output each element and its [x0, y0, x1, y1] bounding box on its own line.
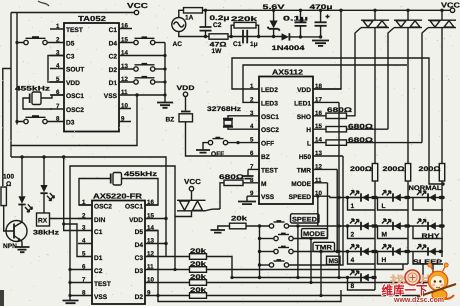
svg-text:OFF: OFF	[261, 141, 274, 148]
U3 right pin labels	[125, 204, 143, 302]
svg-text:VDD: VDD	[177, 85, 195, 92]
U2 left pin stubs 1-9	[236, 89, 259, 196]
svg-text:D5: D5	[66, 41, 75, 48]
svg-text:D4: D4	[109, 41, 118, 48]
svg-text:MS: MS	[329, 258, 339, 265]
U2 left pin labels	[261, 87, 279, 201]
svg-text:SPEED: SPEED	[289, 194, 312, 201]
LED D4 infrared	[40, 157, 54, 213]
svg-text:15: 15	[121, 37, 128, 44]
svg-text:220k: 220k	[231, 16, 258, 23]
resistor R1 47ohm 1W	[209, 34, 228, 55]
wire matrix row1	[345, 197, 443, 199]
svg-text:6: 6	[250, 150, 254, 157]
receiver RX1 38kHz	[33, 213, 92, 237]
svg-text:LED2: LED2	[261, 87, 278, 94]
wire mode col drop	[309, 239, 312, 285]
svg-text:L: L	[307, 141, 311, 148]
svg-text:20k: 20k	[190, 248, 206, 255]
svg-text:2: 2	[250, 96, 254, 103]
svg-text:RX: RX	[38, 218, 48, 225]
U3 left pin labels	[94, 204, 112, 302]
resistor R11 20k (C3)	[190, 248, 233, 278]
svg-text:LED3: LED3	[261, 100, 278, 107]
svg-text:VDD: VDD	[297, 87, 311, 94]
svg-text:200Ω: 200Ω	[383, 166, 406, 173]
triac T1	[347, 10, 390, 163]
svg-text:9: 9	[121, 116, 125, 123]
scan mark bottom left corner	[0, 290, 4, 306]
wire AC to fuse	[179, 10, 184, 17]
LED D16 speed H	[374, 245, 408, 265]
junction key return	[163, 54, 166, 97]
pushbutton S10 MS	[260, 156, 344, 267]
svg-text:www.dzsc.com: www.dzsc.com	[393, 295, 444, 304]
svg-text:1: 1	[351, 203, 355, 210]
pushbutton S4 (pin D2 right)	[134, 63, 165, 71]
resonator X1 455kHz label	[15, 86, 51, 93]
svg-text:L: L	[382, 203, 386, 210]
pushbutton S1 (pin D5)	[17, 36, 50, 45]
U2 right pin numbers	[315, 83, 322, 197]
LED D18 mode RHY	[407, 219, 443, 240]
svg-text:H: H	[306, 127, 311, 134]
wire left frame vertical	[10, 13, 12, 158]
svg-text:8: 8	[56, 116, 60, 123]
svg-text:17: 17	[315, 96, 322, 103]
U3 right pin stubs 16-9	[145, 205, 190, 296]
resistor R7 680ohm (SHO)	[326, 107, 353, 119]
wire W_A from TA052 pin9	[11, 93, 139, 145]
junction W_B taps	[20, 155, 167, 245]
svg-text:200Ω: 200Ω	[350, 166, 373, 173]
svg-text:D3: D3	[135, 268, 144, 275]
pushbutton S3 (pin D4 right)	[134, 36, 165, 44]
svg-text:D3: D3	[66, 120, 75, 127]
svg-text:3: 3	[250, 110, 254, 117]
svg-text:12: 12	[121, 76, 128, 83]
svg-text:H50: H50	[299, 154, 311, 161]
svg-text:OSC2: OSC2	[66, 107, 84, 114]
ground TEST pin7 U2	[242, 169, 254, 178]
svg-text:D2: D2	[135, 294, 144, 301]
U1 left pin labels	[66, 27, 84, 127]
triac T0	[175, 191, 220, 270]
U2 left pin numbers	[250, 83, 254, 197]
svg-text:20k: 20k	[190, 261, 206, 268]
svg-text:15: 15	[147, 213, 154, 220]
pushbutton S6 ON/OFF	[203, 137, 246, 158]
junction triac T0 drop	[173, 268, 176, 271]
svg-text:4: 4	[250, 123, 254, 130]
svg-text:SOUT: SOUT	[66, 67, 84, 74]
svg-text:18: 18	[315, 83, 322, 90]
svg-text:10: 10	[147, 277, 154, 284]
svg-text:200Ω: 200Ω	[419, 166, 442, 173]
resistor R15 20k (speed line)	[218, 216, 269, 230]
wire AC bottom rail	[179, 32, 209, 37]
wire pin10 speed row feed	[316, 195, 345, 226]
svg-text:7: 7	[82, 277, 86, 284]
ground supply	[312, 41, 329, 46]
resistor R3 200ohm	[350, 164, 378, 291]
wire D5 column	[145, 231, 341, 302]
U1 left pin numbers	[56, 23, 60, 123]
svg-text:10: 10	[121, 103, 128, 110]
wire C3 to VDD strap	[48, 56, 64, 83]
resonator X1 455kHz	[23, 92, 64, 109]
node VDD terminal buzzer	[177, 85, 195, 97]
wire SOUT net left edge	[3, 69, 11, 187]
LED D3 infrared	[18, 157, 32, 222]
capacitor C1 1u	[233, 30, 258, 48]
svg-text:MODE: MODE	[303, 231, 326, 238]
svg-text:1N4004: 1N4004	[272, 45, 305, 52]
U1 right pin stubs 16-9	[119, 29, 165, 122]
junction LED1 feed row4	[337, 276, 340, 279]
ground R15	[211, 230, 226, 233]
capacitor C2 0.2u	[200, 10, 230, 36]
svg-text:TEST: TEST	[94, 281, 111, 288]
pushbutton S8 MODE	[260, 183, 328, 241]
svg-text:16: 16	[315, 110, 322, 117]
LED D12 timer 4	[346, 245, 375, 265]
wire top rail	[203, 9, 451, 11]
svg-text:MODE: MODE	[291, 181, 311, 188]
svg-text:M: M	[261, 181, 267, 188]
U3 left pin stubs 1-8	[70, 205, 92, 296]
wire matrix row2	[345, 225, 443, 227]
svg-text:TMR: TMR	[297, 167, 312, 174]
junction rail B	[406, 196, 409, 253]
junction top rail taps	[204, 9, 444, 12]
resistor R13 20k (pin10)	[190, 264, 434, 285]
ground U3 VSS	[63, 301, 79, 304]
svg-text:D4: D4	[135, 242, 144, 249]
svg-text:680Ω: 680Ω	[219, 174, 245, 181]
svg-text:TMR: TMR	[315, 245, 332, 252]
svg-text:VCC: VCC	[127, 1, 148, 10]
junction rail C	[441, 182, 444, 227]
IC U1 TA052 body	[64, 14, 119, 132]
svg-text:TEST: TEST	[261, 167, 278, 174]
resonator X2 455kHz label	[124, 171, 158, 178]
triac T3	[422, 10, 456, 163]
svg-text:LED1: LED1	[294, 100, 311, 107]
wire U3 C1 tap	[64, 157, 78, 231]
resistor R6 680ohm (M pin)	[219, 174, 245, 209]
watermark badge seal	[405, 270, 420, 285]
LED D14 speed L	[374, 191, 408, 211]
LED D10 timer 1	[346, 191, 375, 211]
node VCC right terminal	[441, 1, 460, 13]
watermark red text	[382, 284, 428, 298]
svg-text:13: 13	[121, 63, 128, 70]
svg-text:4: 4	[82, 238, 86, 245]
resistor R9 680ohm (L)	[326, 137, 422, 145]
svg-text:8: 8	[351, 283, 355, 290]
resistor R4 200ohm	[383, 164, 411, 265]
svg-text:C3: C3	[66, 54, 75, 61]
svg-text:OSC2: OSC2	[94, 204, 112, 211]
LED D11 timer 2	[346, 219, 375, 239]
svg-text:1W: 1W	[212, 48, 223, 55]
ground OFF switch	[196, 150, 210, 153]
buzzer BZ1	[166, 97, 247, 157]
svg-text:C1: C1	[109, 27, 118, 34]
svg-text:VCC: VCC	[441, 1, 460, 10]
LED D15 speed M	[374, 219, 408, 239]
svg-text:32768Hz: 32768Hz	[207, 106, 242, 113]
ground Q1 emitter	[15, 242, 30, 253]
svg-text:SPEED: SPEED	[292, 216, 317, 223]
svg-text:13: 13	[147, 238, 154, 245]
svg-text:OSC1: OSC1	[125, 204, 143, 211]
pushbutton S9 TMR	[260, 169, 348, 253]
svg-text:C1: C1	[94, 229, 103, 236]
svg-text:0.2μ: 0.2μ	[210, 15, 230, 22]
wire row4 feed	[230, 276, 347, 279]
junction bottom rail	[204, 35, 275, 38]
svg-text:2: 2	[56, 37, 60, 44]
svg-text:TEST: TEST	[66, 27, 83, 34]
svg-text:455kHz: 455kHz	[124, 171, 158, 178]
wire tmr col drop	[319, 252, 322, 298]
U1 right pin numbers	[121, 23, 128, 123]
svg-text:20k: 20k	[190, 287, 206, 294]
triac T2	[388, 10, 422, 163]
wire loop above U3	[70, 166, 175, 270]
svg-text:20k: 20k	[231, 216, 247, 223]
wire switch common rail	[258, 226, 261, 279]
svg-text:BZ: BZ	[261, 154, 270, 161]
svg-text:3: 3	[82, 225, 86, 232]
svg-text:RHY: RHY	[422, 233, 441, 240]
svg-text:M: M	[382, 232, 388, 239]
svg-text:4: 4	[351, 257, 355, 264]
svg-text:5.6V: 5.6V	[263, 4, 286, 11]
svg-text:D2: D2	[109, 67, 118, 74]
U3 left pin numbers	[82, 199, 86, 297]
resistor R8 680ohm (H)	[326, 124, 388, 132]
U1 left pin stubs 1-8	[50, 29, 64, 122]
junction frame/key common	[15, 41, 18, 123]
pushbutton S5 (pin D1 right)	[134, 76, 165, 84]
svg-text:100: 100	[3, 174, 14, 181]
svg-text:12: 12	[147, 251, 154, 258]
zener D1 5.6V	[263, 4, 286, 37]
svg-text:0.1μ: 0.1μ	[283, 16, 308, 23]
svg-text:1: 1	[56, 23, 60, 30]
watermark mascot	[417, 263, 456, 301]
ground TA052 VSS	[157, 103, 173, 108]
wire key return vertical to ground	[164, 43, 166, 103]
LED D13 timer 8	[346, 271, 375, 291]
svg-text:VSS: VSS	[94, 294, 108, 301]
svg-text:20k: 20k	[190, 274, 206, 281]
svg-text:TA052: TA052	[78, 14, 106, 23]
U2 right pin labels	[289, 87, 312, 201]
svg-text:VSS: VSS	[261, 194, 275, 201]
svg-text:9: 9	[250, 190, 254, 197]
svg-text:5: 5	[82, 251, 86, 258]
pushbutton S7 SPEED	[258, 214, 345, 228]
svg-text:13: 13	[315, 150, 322, 157]
resistor R2 220k	[231, 16, 259, 37]
svg-text:AX5220-FR: AX5220-FR	[93, 192, 143, 201]
U2 right pin stubs 18-10	[313, 89, 343, 196]
svg-text:470μ: 470μ	[310, 4, 333, 11]
svg-text:16: 16	[121, 23, 128, 30]
LED D19 mode SLEEP	[407, 245, 443, 267]
diode D2 1N4004	[272, 33, 305, 52]
svg-text:C2: C2	[109, 54, 118, 61]
svg-text:15: 15	[315, 123, 322, 130]
svg-text:5: 5	[250, 137, 254, 144]
fuse F1 1A	[184, 8, 203, 22]
wire LED3 drive top	[243, 65, 407, 102]
svg-text:OFF: OFF	[211, 151, 224, 158]
svg-text:AX5112: AX5112	[272, 68, 303, 77]
svg-text:C2: C2	[94, 268, 103, 275]
wire TEST VSS tie to ground	[68, 268, 71, 300]
resistor R5 200ohm	[419, 164, 445, 258]
svg-text:C2: C2	[213, 22, 222, 29]
wire key common vertical	[16, 13, 18, 125]
wire U3 D1 tap	[62, 222, 78, 256]
svg-text:11: 11	[315, 177, 322, 184]
svg-text:VCC: VCC	[184, 177, 201, 186]
svg-text:1μ: 1μ	[250, 41, 258, 48]
svg-text:VSS: VSS	[104, 93, 118, 100]
svg-text:7: 7	[250, 163, 254, 170]
IC U2 AX5112 body	[259, 68, 313, 205]
svg-text:12: 12	[315, 163, 322, 170]
ground VSS pin9 U2	[238, 196, 256, 204]
U1 right pin labels	[104, 27, 118, 100]
svg-text:AC: AC	[173, 41, 183, 48]
junction LED1 feed	[337, 196, 340, 253]
svg-text:VDD: VDD	[129, 217, 143, 224]
svg-text:SHO: SHO	[297, 114, 311, 121]
resonator X2 455kHz	[79, 173, 158, 206]
svg-text:6: 6	[82, 264, 86, 271]
watermark url	[393, 295, 444, 304]
wire matrix row3	[348, 251, 444, 253]
svg-text:DIN: DIN	[94, 217, 106, 224]
LED D17 mode NORMAL	[407, 185, 443, 210]
svg-text:680Ω: 680Ω	[327, 107, 353, 114]
svg-text:1A: 1A	[185, 15, 194, 22]
svg-text:38kHz: 38kHz	[33, 230, 60, 237]
svg-text:2: 2	[351, 232, 355, 239]
AC source G1	[172, 18, 186, 49]
svg-text:OSC2: OSC2	[261, 127, 279, 134]
wire VCC top rail to frame	[11, 12, 134, 14]
resistor R10 100ohm	[1, 174, 14, 232]
junction rail A	[373, 196, 376, 279]
IC U3 AX5220-FR body	[92, 192, 145, 305]
wire LED1 feed vertical	[338, 102, 340, 277]
wire bottom rail right	[295, 35, 323, 38]
U3 right pin numbers	[147, 199, 154, 297]
scan mark top left	[38, 1, 49, 6]
svg-text:BZ: BZ	[166, 117, 175, 124]
wire speed column to matrix row4	[297, 226, 299, 278]
watermark faded slogan	[390, 274, 434, 287]
svg-text:D1: D1	[94, 255, 103, 262]
svg-text:14: 14	[121, 50, 128, 57]
svg-text:OSC1: OSC1	[261, 114, 279, 121]
svg-text:D5: D5	[135, 229, 144, 236]
wire VDD feed from rail	[313, 10, 341, 89]
pushbutton S2 (pin D3)	[17, 115, 50, 124]
wire LED2 drive top	[232, 58, 443, 184]
junction OFF line	[236, 141, 239, 144]
node VCC terminal top-left	[127, 1, 148, 15]
svg-text:14: 14	[315, 137, 322, 144]
resistor R12 20k (D3)	[190, 261, 404, 272]
node VCC mid terminal	[184, 177, 201, 191]
capacitor C3 0.1u	[283, 10, 308, 37]
svg-text:C1: C1	[233, 41, 242, 48]
svg-text:4: 4	[56, 63, 60, 70]
resistor R14 20k (D2)	[190, 264, 424, 298]
capacitor C4 470u electrolytic	[310, 4, 333, 38]
svg-text:C3: C3	[135, 255, 144, 262]
svg-text:OSC1: OSC1	[66, 93, 84, 100]
svg-text:H: H	[382, 257, 387, 264]
svg-text:8: 8	[82, 290, 86, 297]
svg-text:9: 9	[147, 290, 151, 297]
svg-text:11: 11	[121, 89, 128, 96]
svg-text:7: 7	[56, 103, 60, 110]
transistor Q1 NPN	[3, 221, 27, 251]
wire matrix row4	[348, 277, 376, 279]
svg-text:11: 11	[147, 264, 154, 271]
crystal Y1 32768Hz	[207, 106, 242, 129]
svg-text:D1: D1	[109, 80, 118, 87]
wire bottom rail mid	[228, 36, 282, 38]
svg-text:1: 1	[250, 83, 254, 90]
wire W_B distribution	[11, 157, 166, 257]
svg-text:VDD: VDD	[66, 80, 80, 87]
